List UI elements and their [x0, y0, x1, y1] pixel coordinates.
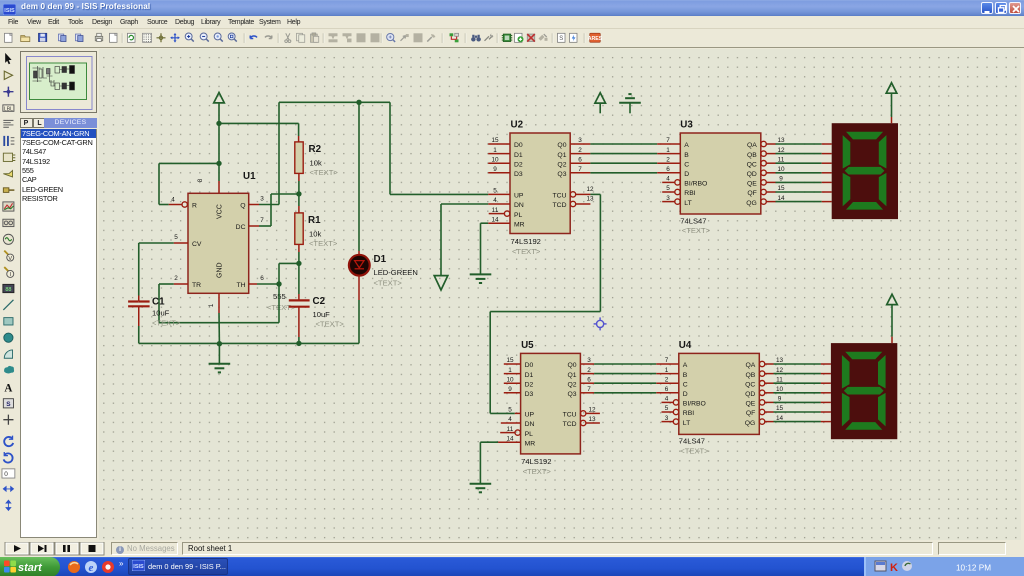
svg-text:Q2: Q2: [568, 381, 577, 388]
pin Q2 U5: [568, 376, 595, 388]
svg-text:11: 11: [776, 376, 783, 383]
svg-text:1: 1: [508, 367, 512, 374]
svg-text:A: A: [4, 383, 12, 395]
svg-text:10: 10: [491, 156, 499, 163]
wire QA to display: [776, 143, 832, 145]
svg-text:Q0: Q0: [557, 142, 566, 149]
power terminal mid-top: [595, 93, 606, 114]
svg-text:TR: TR: [192, 282, 201, 289]
svg-text:6: 6: [587, 376, 591, 383]
wire QE to display2: [774, 401, 831, 403]
svg-text:U4: U4: [679, 340, 692, 351]
label 555: [273, 292, 286, 301]
svg-text:QB: QB: [745, 372, 755, 379]
svg-text:4: 4: [508, 416, 512, 423]
svg-text:<TEXT>: <TEXT>: [512, 247, 541, 256]
svg-text:3: 3: [260, 196, 264, 203]
wire TR pin 2: [159, 275, 279, 323]
svg-text:1: 1: [665, 367, 669, 374]
wire Q2 to U3: [590, 162, 657, 164]
svg-text:1: 1: [208, 303, 215, 307]
svg-text:14: 14: [506, 435, 514, 442]
pin B U4: [656, 367, 688, 379]
svg-text:10uF: 10uF: [313, 310, 331, 319]
svg-text:UP: UP: [525, 412, 535, 419]
svg-text:2: 2: [587, 367, 591, 374]
canvas background: [99, 49, 1021, 540]
pin name TH: [236, 282, 245, 289]
svg-text:4: 4: [665, 396, 669, 403]
wire Q0 to U3: [590, 143, 657, 145]
svg-text:88: 88: [5, 287, 11, 293]
svg-text:»: »: [119, 559, 124, 568]
svg-text:1: 1: [666, 147, 670, 154]
wire QB to display2: [774, 373, 831, 375]
svg-text:D2: D2: [525, 381, 534, 388]
wire D1 cathode: [358, 275, 360, 343]
ground-arrow terminal DN: [434, 276, 448, 290]
junction TR-TH: [276, 281, 281, 286]
label C1 value: [152, 309, 170, 318]
svg-text:D1: D1: [514, 152, 523, 159]
label C1 TEXT: [152, 319, 181, 328]
pin name DC: [236, 224, 246, 231]
svg-text:QC: QC: [745, 381, 755, 388]
svg-text:TH: TH: [236, 282, 245, 289]
svg-text:10: 10: [776, 386, 784, 393]
svg-text:12: 12: [776, 367, 784, 374]
pin LT U4: [662, 415, 691, 427]
pin BI/RBO U4: [662, 396, 706, 408]
pin BI/RBO U3: [662, 176, 707, 188]
svg-text:8: 8: [197, 178, 204, 182]
wire U5 MR to ground: [480, 442, 498, 483]
svg-text:6: 6: [666, 166, 670, 173]
svg-text:ISIS: ISIS: [4, 8, 15, 14]
svg-text:3: 3: [587, 357, 591, 364]
pin number 8 rotated: [197, 178, 204, 182]
svg-text:BI/RBO: BI/RBO: [684, 181, 707, 188]
wire DC pin 7: [249, 194, 299, 226]
pin D U4: [656, 386, 688, 398]
pin name TR: [192, 282, 201, 289]
svg-text:14: 14: [491, 216, 499, 223]
svg-text:15: 15: [776, 405, 784, 412]
svg-text:Q1: Q1: [568, 372, 577, 379]
ic U4 74LS47 body: [679, 353, 760, 434]
wire QF to display2: [774, 411, 831, 413]
svg-text:12: 12: [777, 147, 785, 154]
svg-text:U5: U5: [521, 340, 534, 351]
svg-text:C2: C2: [313, 296, 326, 307]
svg-text:2: 2: [666, 156, 670, 163]
svg-text:V: V: [8, 256, 12, 262]
svg-text:D: D: [684, 171, 689, 178]
pin QB U3: [747, 147, 785, 159]
pin QF U4: [746, 405, 784, 417]
wire QF to display: [776, 191, 832, 193]
svg-text:15: 15: [506, 357, 514, 364]
pin PL U2: [489, 207, 523, 219]
pin name Q: [240, 202, 245, 209]
wire Q3 to U3: [590, 172, 657, 174]
label U3 TEXT: [682, 226, 711, 235]
pin C U4: [656, 376, 688, 388]
svg-text:K: K: [890, 562, 898, 574]
svg-text:15: 15: [491, 137, 499, 144]
pin QA U3: [747, 137, 785, 149]
svg-text:74LS47: 74LS47: [679, 437, 705, 446]
svg-text:PL: PL: [525, 431, 534, 438]
label U5 TEXT: [523, 467, 552, 476]
svg-text:D2: D2: [514, 161, 523, 168]
label U4 part: [679, 437, 705, 446]
svg-text:A: A: [684, 142, 689, 149]
svg-text:U1: U1: [243, 171, 256, 182]
wire QD to display2: [774, 392, 831, 394]
svg-text:QB: QB: [747, 152, 757, 159]
pin Q3 U2: [557, 166, 590, 178]
pin D1 U2: [488, 147, 523, 159]
label R1: [308, 215, 321, 226]
svg-text:Q3: Q3: [568, 391, 577, 398]
svg-text:Q0: Q0: [568, 362, 577, 369]
svg-text:BI/RBO: BI/RBO: [683, 401, 706, 408]
pin D1 U5: [504, 367, 534, 379]
origin marker: [594, 317, 607, 330]
svg-text:74LS47: 74LS47: [680, 216, 706, 225]
resistor R2: [295, 142, 303, 194]
label C1: [152, 297, 165, 308]
svg-text:13: 13: [777, 137, 785, 144]
svg-text:11: 11: [492, 207, 499, 214]
pin QD U3: [747, 166, 785, 178]
pin DN U5: [501, 416, 535, 428]
svg-text:D1: D1: [374, 254, 387, 265]
pin UP U2: [488, 188, 524, 200]
schematic canvas: [99, 49, 1021, 540]
svg-text:U2: U2: [511, 120, 524, 131]
pin name GND rotated: [217, 262, 224, 278]
wire TCU to U5 UP: [490, 194, 600, 413]
svg-text:5: 5: [665, 405, 669, 412]
svg-text:C1: C1: [152, 297, 165, 308]
svg-text:7: 7: [260, 217, 264, 224]
svg-text:S: S: [559, 36, 563, 42]
svg-text:2: 2: [578, 147, 582, 154]
label U3: [680, 120, 693, 131]
ic U5 74LS192 body: [521, 353, 581, 454]
svg-text:3: 3: [666, 195, 670, 202]
ground symbol U2 MR: [470, 274, 492, 283]
svg-text:D1: D1: [525, 372, 534, 379]
pin Q0 U2: [557, 137, 590, 149]
svg-text:10:12 PM: 10:12 PM: [956, 564, 991, 573]
wire D1 anode: [358, 102, 360, 255]
svg-text:D0: D0: [525, 362, 534, 369]
label D1 value: [374, 268, 418, 277]
svg-text:LT: LT: [683, 420, 690, 427]
pin D2 U2: [488, 156, 523, 168]
svg-text:3: 3: [665, 415, 669, 422]
junction top D1: [356, 100, 361, 105]
ground terminal mid-top inverted: [619, 94, 641, 113]
svg-text:14: 14: [776, 415, 784, 422]
pin Q0 U5: [568, 357, 595, 369]
svg-text:MR: MR: [525, 440, 536, 447]
svg-text:<TEXT>: <TEXT>: [152, 319, 181, 328]
svg-text:C: C: [683, 381, 688, 388]
svg-text:10k: 10k: [309, 229, 321, 238]
ground symbol U1: [209, 344, 231, 373]
resistor R1: [295, 194, 303, 263]
svg-text:Q1: Q1: [557, 152, 566, 159]
svg-text:QE: QE: [745, 401, 755, 408]
label U2 TEXT: [512, 247, 541, 256]
pin DN U2: [488, 197, 524, 209]
7seg display DS2: [831, 343, 897, 439]
svg-text:A: A: [683, 362, 688, 369]
svg-text:RBI: RBI: [683, 410, 694, 417]
wire VCC stem to U1 pin 8: [218, 123, 220, 193]
wire QG to display2: [774, 421, 831, 423]
svg-text:B: B: [683, 372, 688, 379]
svg-text:12: 12: [586, 186, 594, 193]
svg-text:DN: DN: [514, 202, 524, 209]
ground symbol U5 MR: [470, 484, 492, 493]
svg-text:MR: MR: [514, 221, 525, 228]
svg-text:74LS192: 74LS192: [521, 457, 551, 466]
junction R1-C2-TH: [296, 261, 301, 266]
svg-text:10k: 10k: [310, 159, 322, 168]
pin B U3: [657, 147, 689, 159]
svg-text:RBI: RBI: [684, 190, 695, 197]
wire CV pin 5: [139, 234, 188, 301]
svg-text:LED-GREEN: LED-GREEN: [374, 268, 418, 277]
svg-text:13: 13: [776, 357, 784, 364]
svg-text:LT: LT: [684, 200, 691, 207]
label U5: [521, 340, 534, 351]
svg-text:ISIS: ISIS: [133, 564, 144, 570]
pin Q1 U5: [568, 367, 595, 379]
pin QB U4: [745, 367, 783, 379]
wire U2 DN to terminal: [441, 204, 488, 275]
svg-text:QF: QF: [746, 410, 755, 417]
label U1: [243, 171, 256, 182]
svg-text:QD: QD: [747, 171, 757, 178]
title bar: [0, 0, 1024, 16]
svg-text:PL: PL: [514, 212, 523, 219]
status bar: [0, 540, 1024, 557]
svg-text:U3: U3: [680, 120, 693, 131]
svg-text:GND: GND: [217, 262, 224, 278]
label R1 TEXT: [309, 239, 338, 248]
svg-text:9: 9: [778, 396, 782, 403]
wire U2 MR to ground: [481, 223, 489, 274]
label U2: [511, 120, 524, 131]
label U5 part: [521, 457, 551, 466]
wire down to U2 UP: [390, 102, 488, 194]
capacitor C2: [289, 263, 310, 343]
svg-text:5: 5: [493, 188, 497, 195]
svg-text:D: D: [683, 391, 688, 398]
label R1 value: [309, 229, 321, 238]
svg-text:10uF: 10uF: [152, 309, 170, 318]
ic U3 74LS47 body: [680, 133, 761, 214]
power terminal VCC top-left: [214, 93, 225, 124]
pin QD U4: [745, 386, 783, 398]
svg-text:R: R: [192, 202, 197, 209]
label R2: [309, 144, 322, 155]
svg-text:D3: D3: [514, 171, 523, 178]
svg-text:7: 7: [665, 357, 669, 364]
svg-text:start: start: [18, 562, 43, 574]
wire QB to display: [776, 153, 832, 155]
svg-text:2: 2: [665, 376, 669, 383]
wire TH to R1-C2 node: [279, 263, 299, 284]
taskbar: [0, 557, 1024, 576]
pin QC U4: [745, 376, 783, 388]
pin D3 U2: [488, 166, 523, 178]
label U3 part: [680, 216, 706, 225]
junction R2-R1-DC: [296, 191, 301, 196]
pin bubble R U1: [182, 202, 187, 207]
pin QF U3: [747, 185, 785, 197]
wire VCC rail to R2: [219, 122, 299, 124]
svg-text:TCU: TCU: [553, 193, 567, 200]
wire QG to display: [776, 201, 832, 203]
pin C U3: [657, 156, 689, 168]
capacitor C1: [128, 302, 150, 344]
svg-text:5: 5: [666, 185, 670, 192]
svg-text:QG: QG: [745, 420, 756, 427]
svg-text:9: 9: [493, 166, 497, 173]
wire QA to display2: [774, 363, 831, 365]
svg-text:UP: UP: [514, 193, 524, 200]
wire QC to display: [776, 162, 832, 164]
wire Q1 to U3: [590, 153, 657, 155]
pin A U4: [656, 357, 688, 369]
wire Q2 to U4: [594, 382, 656, 384]
pin TCU U2: [553, 186, 594, 200]
pin MR U2: [488, 216, 524, 228]
svg-text:QA: QA: [747, 142, 757, 149]
pin QC U3: [747, 156, 785, 168]
svg-text:4: 4: [493, 197, 497, 204]
svg-text:C: C: [684, 161, 689, 168]
label U4: [679, 340, 692, 351]
wire QE to display: [776, 181, 832, 183]
svg-text:4: 4: [666, 176, 670, 183]
svg-text:6: 6: [578, 156, 582, 163]
svg-text:10: 10: [777, 166, 785, 173]
label C2 value: [313, 310, 331, 319]
svg-text:2: 2: [174, 275, 178, 282]
wire ground rail: [139, 342, 359, 344]
pin Q3 U5: [568, 386, 595, 398]
svg-text:4: 4: [171, 197, 175, 204]
svg-text:ARES: ARES: [588, 36, 603, 42]
svg-text:DN: DN: [525, 421, 535, 428]
label C2 TEXT: [316, 320, 345, 329]
svg-text:6: 6: [260, 275, 264, 282]
junction C2-rail: [296, 341, 301, 346]
svg-text:Q: Q: [240, 202, 245, 209]
pin QA U4: [745, 357, 783, 369]
menu bar: [0, 16, 1024, 29]
pin QE U3: [747, 176, 783, 188]
led D1: [349, 255, 370, 276]
svg-text:R1: R1: [308, 215, 321, 226]
svg-text:1: 1: [493, 147, 497, 154]
svg-text:CV: CV: [192, 241, 202, 248]
svg-text:7: 7: [666, 137, 670, 144]
pin D2 U5: [504, 376, 534, 388]
svg-text:74LS192: 74LS192: [511, 237, 541, 246]
pin name CV: [192, 241, 202, 248]
pin UP U5: [508, 407, 534, 419]
svg-text:QA: QA: [745, 362, 755, 369]
svg-text:5: 5: [508, 407, 512, 414]
pin QG U4: [745, 415, 784, 427]
svg-text:S: S: [6, 401, 11, 408]
label U2 part: [511, 237, 541, 246]
wire reset loop R pin: [159, 163, 219, 204]
svg-text:TCU: TCU: [563, 412, 577, 419]
pin TCD U2: [553, 196, 594, 210]
svg-text:B: B: [684, 152, 689, 159]
pin QG U3: [746, 195, 785, 207]
svg-text:13: 13: [588, 416, 596, 423]
svg-text:15: 15: [777, 185, 785, 192]
svg-text:<TEXT>: <TEXT>: [316, 320, 345, 329]
svg-text:QC: QC: [747, 161, 757, 168]
pin D0 U5: [504, 357, 534, 369]
wire Q output top run: [279, 101, 390, 103]
svg-text:5: 5: [174, 234, 178, 241]
7seg display DS1: [832, 123, 898, 219]
wire Q pin 3: [249, 102, 279, 204]
svg-text:<TEXT>: <TEXT>: [682, 226, 711, 235]
svg-text:R2: R2: [309, 144, 322, 155]
label R2 TEXT: [310, 168, 339, 177]
pin TCD U5: [563, 416, 600, 428]
svg-text:TCD: TCD: [553, 202, 567, 209]
svg-text:DC: DC: [236, 224, 246, 231]
svg-text:10: 10: [506, 376, 514, 383]
wire R2 top lead: [298, 123, 300, 141]
pin name R: [192, 202, 197, 209]
svg-text:Q3: Q3: [557, 171, 566, 178]
pin QE U4: [745, 396, 781, 408]
pin Q1 U2: [557, 147, 590, 159]
pin A U3: [657, 137, 689, 149]
svg-text:D3: D3: [525, 391, 534, 398]
pin MR U5: [498, 435, 535, 447]
junction at 219,123: [216, 121, 221, 126]
svg-text:<TEXT>: <TEXT>: [523, 467, 552, 476]
sidebar: [0, 49, 99, 540]
svg-text:LBL: LBL: [4, 106, 13, 112]
pin Q2 U2: [557, 156, 590, 168]
svg-text:6: 6: [665, 386, 669, 393]
svg-text:QE: QE: [747, 181, 757, 188]
svg-text:Q2: Q2: [557, 161, 566, 168]
svg-text:QD: QD: [745, 391, 755, 398]
svg-text:<TEXT>: <TEXT>: [374, 278, 403, 287]
svg-text:3: 3: [578, 137, 582, 144]
svg-text:9: 9: [508, 386, 512, 393]
